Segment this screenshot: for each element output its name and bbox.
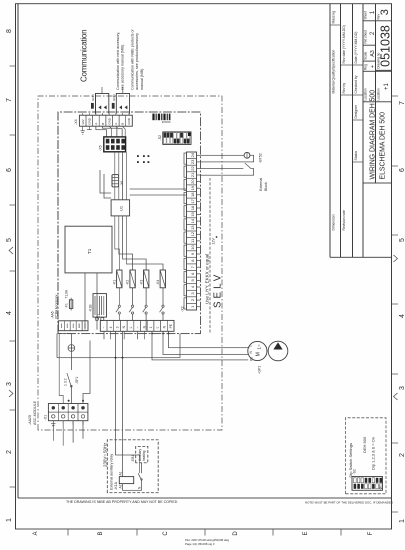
svg-text:12V: 12V [81,119,85,124]
pump feed wires [152,331,249,360]
wire PE [83,341,90,404]
svg-text:Mass kg: Mass kg [332,11,336,24]
top ruler ticks [10,66,16,487]
relay K2 coil [126,270,136,288]
relay K1B (main) [89,294,107,321]
svg-text:THE DRAWING IS NIBE AB PROPERT: THE DRAWING IS NIBE AB PROPERTY AND MAY … [66,500,178,504]
relays K1-K4 [51,270,175,331]
svg-text:051038: 051038 [379,25,393,67]
svg-text:-EB1: -EB1 [131,455,135,462]
svg-text:2: 2 [399,453,405,457]
svg-text:NOTE! MUST BE PART OF THE DELI: NOTE! MUST BE PART OF THE DELIVERED DOC.… [305,501,393,505]
external items [107,152,386,493]
svg-text:GND: GND [127,117,131,125]
auxiliary heating box [136,446,148,462]
svg-text:Block: Block [264,182,268,191]
contact K2 [129,288,133,321]
ic U1 box [111,200,130,216]
svg-text:Reg: Reg [364,64,368,70]
svg-text:heating: heating [142,450,146,461]
svg-text:1 3 2: 1 3 2 [64,378,68,386]
svg-text:see accessory manual (NIB).: see accessory manual (NIB). [121,44,125,90]
pump motor GP1 [248,341,288,374]
wires X4 to X5 (staircase) [96,126,125,137]
svg-text:20: 20 [190,179,195,184]
mains section [28,331,288,471]
contact K1A [138,463,141,480]
left ruler ticks [68,529,341,536]
svg-text:PCBA Accessory: PCBA Accessory [55,294,59,318]
title block col dividers upper rows [330,25,363,162]
svg-text:A: A [114,123,118,125]
svg-text:U1: U1 [119,205,124,211]
relay K1 coil [112,270,122,288]
svg-text:Status: Status [354,151,358,161]
svg-text:L: L [129,326,133,328]
jumper pins [137,155,149,163]
svg-text:1~: 1~ [257,344,262,349]
wires contacts bus [107,320,163,330]
svg-text:External auxiliary relay: External auxiliary relay [110,454,114,490]
mains terminal strip on PCB edge [97,314,175,331]
dip switch S2 on PCB [158,132,191,145]
PCB board AA23 outline [58,112,200,334]
svg-text:T1: T1 [87,248,92,254]
connector X10b small [112,175,124,187]
earth symbol [68,345,75,352]
svg-text:B: B [121,123,125,125]
svg-text:GND: GND [107,117,111,125]
svg-text:-K1B: -K1B [89,304,93,312]
accessory terminal strip on PCB edge [51,294,89,330]
svg-text:1: 1 [149,326,153,328]
svg-text:A: A [94,123,98,125]
svg-text:7: 7 [399,101,405,105]
connector X10 (communication in) [112,87,130,114]
contact K4 [160,288,164,321]
svg-text:-X4: -X4 [74,119,78,125]
svg-text:~: ~ [102,326,106,328]
svg-text:T1,6A: T1,6A [65,289,69,298]
svg-text:-X1: -X1 [44,415,48,421]
svg-text:ASC-MODULE: ASC-MODULE [33,400,37,425]
svg-text:C: C [163,531,169,536]
svg-text:1: 1 [399,519,405,523]
svg-text:-X6: -X6 [120,181,124,186]
svg-text:-K1: -K1 [112,280,116,285]
svg-text:DEH 500: DEH 500 [362,436,367,453]
wire selv pins bus [100,170,187,198]
relay K3 coil [139,270,149,288]
relay K1A coil [119,477,133,484]
svg-text:19: 19 [190,185,195,190]
svg-text:Communication with NIBE produc: Communication with NIBE products or [131,28,135,90]
svg-text:22: 22 [190,166,195,171]
svg-text:Checked by: Checked by [354,75,358,93]
svg-text:A: A [33,531,39,535]
svg-text:Dip 1,2,3 & 6 = On: Dip 1,2,3 & 6 = On [371,437,376,470]
title block grid [330,4,392,258]
svg-text:+1: +1 [384,82,390,90]
svg-text:-S2: -S2 [353,469,357,474]
svg-text:13: 13 [190,225,195,230]
svg-text:-GP1: -GP1 [258,366,262,374]
svg-text:Location: Location [377,88,381,100]
wire U1 to K3 [123,152,147,270]
svg-text:21: 21 [190,172,195,177]
svg-text:Rev date (YYYY-MM-DD): Rev date (YYYY-MM-DD) [342,25,346,63]
barcode label on PCB [152,114,170,125]
svg-text:manual (NIB).: manual (NIB). [140,68,144,90]
connector X9 (communication out) [91,87,109,114]
product enclosure boundary (dash-dot) [38,96,222,430]
svg-text:-S2: -S2 [158,135,162,141]
svg-text:A2: A2 [119,484,123,488]
svg-text:GND: GND [88,117,92,125]
bottom fold marks [394,255,398,400]
svg-text:4: 4 [109,326,113,328]
external block contact loop [200,163,267,191]
transformer T1 [65,152,217,330]
svg-text:3: 3 [116,326,120,328]
svg-text:-BT52: -BT52 [259,153,263,163]
svg-text:GND: GND [112,94,116,102]
svg-text:3: 3 [399,386,405,390]
svg-text:12V: 12V [212,238,216,245]
svg-text:Material Quality/Specification: Material Quality/Specification [332,50,336,94]
svg-text:Sheet: Sheet [364,11,368,19]
svg-text:Designer: Designer [354,104,358,118]
svg-text:+: + [370,65,376,68]
svg-text:12: 12 [190,231,195,236]
wire U1 to K2 [119,152,133,270]
svg-text:6: 6 [399,168,405,172]
svg-text:Rev by: Rev by [342,83,346,94]
svg-text:D: D [233,531,239,536]
svg-text:GND: GND [91,94,95,102]
svg-text:B: B [98,531,104,535]
vertical distribution wire [57,357,180,359]
svg-text:Dimension: Dimension [332,214,336,230]
junction dots [68,400,70,402]
fuse F1 [65,289,73,310]
svg-text:M: M [256,352,262,356]
switch SF1 [67,373,72,387]
svg-text:18: 18 [190,192,195,197]
svg-text:accessories, see product/acces: accessories, see product/accessory [135,33,139,90]
svg-text:E: E [303,531,309,535]
wire U1 to K1 [115,152,120,270]
svg-text:-X1: -X1 [97,314,101,319]
svg-text:2: 2 [6,450,13,454]
wire U1 to K4 [126,152,163,270]
svg-text:5: 5 [6,238,13,242]
contact K3 [143,288,147,321]
svg-text:-F1: -F1 [65,303,69,308]
svg-text:Communication: Communication [80,30,89,82]
svg-text:24: 24 [190,152,195,157]
svg-text:4: 4 [6,311,13,315]
svg-text:3: 3 [379,9,391,15]
svg-text:3: 3 [6,382,13,386]
svg-text:Nxt sheet: Nxt sheet [364,30,368,44]
connector X1 (mains) [44,404,88,427]
svg-text:10: 10 [190,245,195,250]
svg-text:Location: Location [364,88,368,100]
wire N [59,334,72,404]
dip switch settings box [345,418,386,494]
svg-text:230V~ 50Hz: 230V~ 50Hz [103,443,108,467]
svg-text:ELSCHEMA DEH 500: ELSCHEMA DEH 500 [380,112,387,180]
svg-text:Scale: Scale [364,51,368,59]
transformer T1 block [65,226,112,273]
bottom ruler numbers [399,101,405,523]
svg-text:Communication with next access: Communication with next accessory, [116,32,120,90]
bottom ruler ticks [392,96,399,512]
relay K4 coil [156,270,166,288]
terminal strip X4 on PCB top [74,113,132,134]
wire T1 primary a [84,273,86,330]
svg-text:-SF1: -SF1 [75,377,79,384]
wire L with switch [70,334,72,404]
external room sensor BT52 loop [200,152,262,163]
svg-text:-K2: -K2 [126,280,130,285]
svg-text:~: ~ [136,326,140,328]
svg-text:6: 6 [6,168,13,172]
svg-text:-K3: -K3 [139,280,143,285]
svg-text:5: 5 [399,238,405,242]
wire T1 primary b [96,273,98,330]
svg-text:A1: A1 [119,471,123,475]
svg-text:7: 7 [6,98,13,102]
svg-text:-K1A: -K1A [114,481,118,490]
svg-text:A3: A3 [370,50,376,57]
wires to auxiliary relay [116,331,140,471]
svg-text:15: 15 [190,212,195,217]
svg-text:4: 4 [399,314,405,318]
svg-text:ON: ON [379,485,383,489]
svg-text:Page 1(1) 051038 utg 3: Page 1(1) 051038 utg 3 [185,542,215,546]
svg-text:16: 16 [190,205,195,210]
svg-text:-AA25: -AA25 [28,415,32,425]
SELV zone dashed separator [209,178,211,333]
svg-text:1: 1 [6,518,13,522]
svg-text:Use LiYY, EKKX or equal: Use LiYY, EKKX or equal [205,254,210,304]
svg-text:External: External [259,178,263,191]
svg-text:14: 14 [190,218,195,223]
svg-text:-K4: -K4 [156,280,160,285]
svg-text:17: 17 [190,198,195,203]
terminal strip X2 (SELV, 24 poles) [181,152,224,333]
svg-text:518106: 518106 [161,120,170,124]
svg-text:SELV: SELV [213,272,224,308]
contact K1 [116,288,121,321]
left ruler letters [33,531,374,536]
svg-text:-X2: -X2 [181,306,185,312]
pin header X5 [99,137,126,152]
incoming mains wires [53,421,83,446]
svg-text:B: B [101,123,105,125]
svg-text:F: F [368,531,374,535]
svg-text:23: 23 [190,159,195,164]
svg-text:WIRING DIAGRAM DEH 500: WIRING DIAGRAM DEH 500 [370,90,377,180]
external auxiliary relay box [107,440,158,493]
svg-text:L: L [156,326,160,328]
dip switch graphic S2 [352,477,383,491]
svg-text:8: 8 [6,29,13,33]
top fold marks [9,247,13,397]
svg-text:Revision note: Revision note [342,210,346,231]
svg-text:-X5: -X5 [99,145,103,151]
svg-text:Date (YYYY-MM-DD): Date (YYYY-MM-DD) [354,32,358,64]
top ruler numbers [6,29,13,522]
